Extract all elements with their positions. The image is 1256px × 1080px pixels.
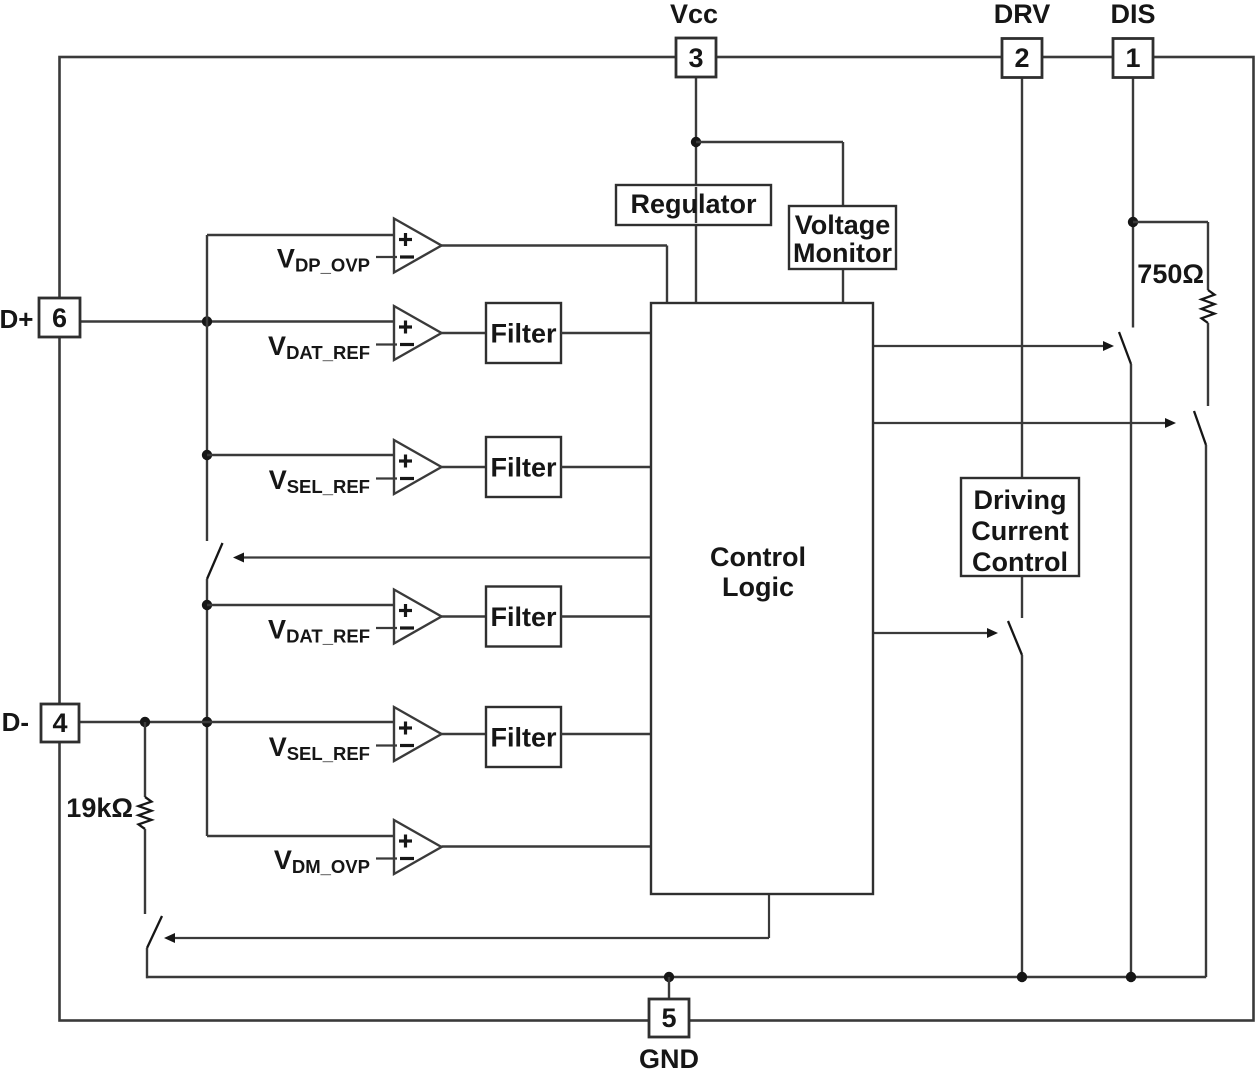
wire U4 output to filter F3	[442, 615, 487, 617]
svg-text:Filter: Filter	[490, 453, 557, 483]
wire S4 to bottom rail	[1021, 655, 1023, 977]
wire filter F2 to control logic	[561, 466, 652, 468]
wire U1 + input	[207, 234, 394, 236]
node D+ junction	[202, 316, 212, 326]
svg-text:GND: GND	[639, 1044, 699, 1074]
node DIS branch	[1128, 217, 1138, 227]
svg-text:Filter: Filter	[490, 602, 557, 632]
wire VSEL_REF minus stub	[376, 744, 397, 746]
wire D+/D- vertical bus lower	[206, 579, 208, 836]
wire DIS pin1 down	[1132, 77, 1134, 328]
switch S4 blade	[1008, 621, 1022, 655]
wire control logic to S2 (arrow)	[873, 345, 1104, 347]
node 19k ohm tap	[140, 717, 150, 727]
wire D- pin4 to comparator U5	[79, 721, 394, 723]
node U4 tap	[202, 600, 212, 610]
wire S5 to bottom rail	[146, 948, 148, 978]
switch S3 blade	[1194, 411, 1206, 445]
svg-text:1: 1	[1125, 43, 1140, 73]
wire U2 output to filter F1	[442, 332, 487, 334]
op-amp comparator U1 (DP_OVP)	[394, 219, 442, 273]
svg-text:Filter: Filter	[490, 723, 557, 753]
wire U4 + input	[207, 604, 394, 606]
voltage monitor block	[789, 206, 896, 269]
filter F3	[486, 587, 561, 647]
svg-text:5: 5	[661, 1003, 676, 1033]
filter F2	[486, 437, 561, 497]
op-amp comparator U3 (SEL_REF)	[394, 440, 442, 494]
svg-text:Filter: Filter	[490, 319, 557, 349]
wire VCC branch to voltage monitor	[696, 141, 843, 143]
node DIS bottom junction	[1126, 972, 1136, 982]
wire D- to resistor R2	[144, 722, 146, 797]
switch S5 blade	[147, 916, 162, 948]
switch S2 blade	[1119, 332, 1131, 364]
node D- junction on bus	[202, 717, 212, 727]
wire voltage monitor to control logic	[842, 268, 844, 304]
wire VDM_OVP minus stub	[376, 857, 397, 859]
svg-text:VSEL_REF: VSEL_REF	[269, 465, 370, 497]
wire U3 + input	[207, 454, 394, 456]
wire R2 to switch S5	[144, 829, 146, 914]
filter F1	[486, 303, 561, 363]
wire filter F1 to control logic	[561, 332, 652, 334]
pin 1 DIS	[1113, 39, 1153, 78]
wire DIS branch to resistor R1	[1133, 221, 1208, 223]
svg-text:VDM_OVP: VDM_OVP	[274, 845, 370, 877]
svg-text:VSEL_REF: VSEL_REF	[269, 732, 370, 764]
wire U3 output to filter F2	[442, 466, 487, 468]
wire U5 output to filter F4	[442, 733, 487, 735]
wire VDAT_REF minus stub	[376, 343, 397, 345]
node VCC branch	[691, 137, 701, 147]
wire control logic to S3 (arrow)	[873, 422, 1166, 424]
wire filter F3 to control logic	[561, 615, 652, 617]
pin 6 D+	[39, 298, 80, 337]
node GND junction	[664, 972, 674, 982]
driving current control block	[961, 478, 1079, 576]
wire regulator to control logic	[695, 224, 697, 304]
wire R1 to switch S3	[1207, 323, 1209, 406]
svg-text:VDP_OVP: VDP_OVP	[277, 244, 370, 276]
node U3 tap	[202, 450, 212, 460]
wire U1 output to control logic top	[442, 244, 668, 246]
svg-text:VDAT_REF: VDAT_REF	[268, 331, 370, 363]
svg-text:Control: Control	[972, 547, 1068, 577]
wire filter F4 to control logic	[561, 733, 652, 735]
svg-text:Monitor: Monitor	[793, 238, 892, 268]
wire S2 to bottom rail	[1130, 364, 1132, 977]
svg-text:19kΩ: 19kΩ	[66, 793, 133, 823]
svg-text:2: 2	[1014, 43, 1029, 73]
wire S3 to bottom rail	[1205, 445, 1207, 977]
wire D+ vertical bus upper	[206, 235, 208, 541]
svg-text:3: 3	[688, 43, 703, 73]
pin 3 VCC	[676, 38, 716, 77]
wire VDP_OVP minus stub	[376, 256, 397, 258]
svg-text:DRV: DRV	[994, 0, 1051, 29]
wire VCC pin3 down to regulator	[695, 77, 697, 186]
wire VSEL_REF minus stub	[376, 477, 397, 479]
svg-text:D+: D+	[0, 304, 34, 334]
op-amp comparator U2 (DAT_REF)	[394, 306, 442, 360]
wire GND junction to pin5	[668, 977, 670, 999]
wire DCC to switch S4	[1021, 575, 1023, 618]
svg-text:VDAT_REF: VDAT_REF	[268, 615, 370, 647]
switch S1 blade	[207, 543, 223, 579]
wire control logic to S1 (arrow)	[243, 556, 651, 558]
resistor R2 19k ohm	[139, 797, 152, 829]
svg-text:Logic: Logic	[722, 572, 794, 602]
pin 2 DRV	[1002, 39, 1042, 78]
svg-text:Voltage: Voltage	[795, 210, 891, 240]
pin 5 GND	[649, 999, 689, 1037]
svg-text:6: 6	[52, 303, 67, 333]
wire U6 + input	[207, 835, 394, 837]
wire D+ pin6 to comparator U2	[80, 320, 394, 322]
filter F4	[486, 707, 561, 767]
wire DRV pin2 to driving current control	[1021, 77, 1023, 479]
op-amp comparator U4 (DAT_REF)	[394, 590, 442, 644]
svg-text:4: 4	[52, 708, 67, 738]
regulator block	[616, 185, 771, 225]
wire VDAT_REF minus stub	[376, 627, 397, 629]
svg-text:DIS: DIS	[1110, 0, 1155, 29]
svg-text:Current: Current	[971, 516, 1069, 546]
wire U6 output to control logic	[442, 845, 653, 847]
node DRV bottom junction	[1017, 972, 1027, 982]
control logic block	[651, 303, 873, 894]
pin 4 D-	[41, 704, 79, 742]
svg-text:750Ω: 750Ω	[1137, 259, 1204, 289]
wire control logic to S4 (arrow)	[873, 632, 988, 634]
svg-text:Regulator: Regulator	[630, 189, 757, 219]
op-amp comparator U6 (DM_OVP)	[394, 820, 442, 874]
op-amp comparator U5 (SEL_REF)	[394, 707, 442, 761]
resistor R1 750 ohm	[1202, 290, 1215, 323]
wire control logic bottom to S5 (arrow)	[768, 894, 770, 938]
svg-text:Vcc: Vcc	[670, 0, 718, 29]
svg-text:Control: Control	[710, 542, 806, 572]
svg-text:D-: D-	[2, 707, 29, 737]
svg-text:Driving: Driving	[973, 485, 1066, 515]
